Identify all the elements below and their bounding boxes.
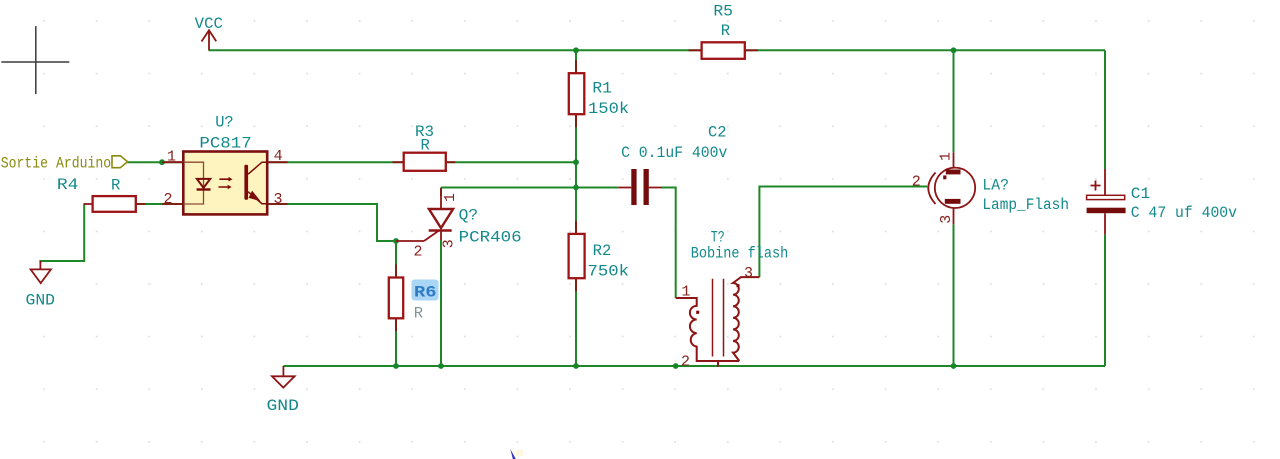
resistor R1 — [569, 60, 629, 127]
svg-text:C2: C2 — [708, 124, 727, 142]
wire C2 to transformer pin 1 — [662, 188, 676, 299]
resistor R3 — [393, 123, 456, 171]
wire R4 to opto pin 2 — [136, 203, 184, 205]
resistor R2 — [569, 221, 629, 291]
junction node R6 bottom — [393, 363, 399, 369]
svg-text:R2: R2 — [593, 242, 612, 260]
svg-text:C 0.1uF 400v: C 0.1uF 400v — [621, 144, 727, 162]
wire thyristor anode row — [441, 187, 576, 189]
capacitor C2 — [618, 124, 727, 206]
wire VCC top rail — [209, 49, 1106, 51]
resistor R6 — [389, 265, 439, 332]
svg-text:R6: R6 — [414, 284, 437, 302]
optocoupler U1 PC817 — [162, 114, 287, 215]
junction node lamp top — [951, 47, 957, 53]
wire Sortie Arduino to opto pin 1 — [128, 161, 184, 163]
wire lamp lower branch — [953, 224, 955, 366]
svg-text:C1: C1 — [1131, 185, 1150, 203]
svg-text:R: R — [721, 22, 730, 40]
svg-text:GND: GND — [26, 292, 56, 310]
svg-text:2: 2 — [414, 244, 423, 261]
junction node C2 R2 — [573, 185, 579, 191]
svg-text:2: 2 — [164, 191, 173, 208]
junction node R2 bottom — [573, 363, 579, 369]
svg-text:R1: R1 — [592, 80, 612, 98]
junction node R3 R1 — [573, 159, 579, 165]
svg-text:R5: R5 — [713, 3, 733, 21]
wire R1 R2 column — [575, 50, 577, 366]
wire bottom GND rail — [283, 365, 1105, 367]
svg-text:3: 3 — [440, 239, 457, 248]
mouse cursor — [510, 449, 523, 459]
svg-text:R: R — [414, 305, 423, 323]
svg-text:2: 2 — [912, 173, 921, 190]
wire transformer pin 3 to lamp trigger — [759, 187, 927, 278]
wire opto pin 4 to R3 to node — [267, 161, 576, 163]
svg-text:2: 2 — [681, 353, 690, 370]
capacitor C1 polarized — [1087, 169, 1237, 235]
junction node lamp bottom — [951, 363, 957, 369]
thyristor Q1 PCR406 — [396, 188, 522, 246]
svg-text:PC817: PC817 — [199, 135, 251, 153]
svg-text:Q?: Q? — [459, 206, 479, 224]
junction node gate R6 — [393, 238, 399, 244]
ground GND bottom — [267, 366, 299, 415]
svg-text:Sortie Arduino: Sortie Arduino — [1, 154, 111, 172]
wire thyristor cathode down — [440, 240, 442, 366]
junction node transformer pin 2 — [673, 363, 679, 369]
svg-text:1: 1 — [442, 193, 459, 202]
transformer T1 Bobine flash — [676, 228, 789, 366]
junction node opto pin 1 — [159, 159, 165, 165]
svg-text:GND: GND — [267, 397, 299, 415]
svg-text:VCC: VCC — [195, 15, 223, 33]
svg-text:1: 1 — [937, 152, 954, 161]
power symbol VCC — [202, 30, 217, 50]
wire lamp upper branch — [953, 50, 955, 152]
wire opto pin 3 to gate node — [267, 204, 396, 241]
wire C1 lower to bottom rail — [1104, 235, 1106, 366]
wire R4 left to GND — [40, 204, 84, 263]
svg-text:3: 3 — [274, 191, 283, 208]
svg-text:U?: U? — [215, 114, 234, 132]
svg-text:R: R — [111, 177, 120, 195]
sheet origin crosshair — [1, 26, 69, 94]
resistor R4 — [57, 176, 146, 212]
svg-text:3: 3 — [744, 265, 753, 282]
wire thyristor anode stub top — [440, 188, 442, 197]
wire R6 branch — [395, 241, 397, 366]
ground GND left — [26, 261, 56, 310]
svg-text:Lamp_Flash: Lamp_Flash — [982, 196, 1069, 214]
resistor R5 — [689, 3, 759, 59]
svg-text:4: 4 — [274, 148, 283, 165]
svg-text:Bobine flash: Bobine flash — [691, 244, 789, 262]
svg-text:3: 3 — [938, 215, 955, 224]
junction node cathode bottom — [438, 363, 444, 369]
svg-text:750k: 750k — [588, 263, 630, 281]
global label Sortie Arduino — [1, 154, 128, 172]
svg-text:1: 1 — [167, 149, 176, 166]
svg-text:150k: 150k — [588, 100, 629, 118]
wire node to C2 — [576, 187, 618, 189]
junction node R1 top — [573, 47, 579, 53]
svg-text:1: 1 — [682, 283, 691, 300]
lamp LA1 Lamp_Flash — [928, 152, 1069, 224]
svg-text:C 47 uf 400v: C 47 uf 400v — [1131, 204, 1237, 222]
svg-text:PCR406: PCR406 — [459, 228, 522, 246]
svg-text:LA?: LA? — [982, 176, 1009, 194]
wire right branch to C1 upper — [1104, 50, 1106, 169]
svg-text:R4: R4 — [57, 176, 79, 194]
svg-text:R: R — [421, 137, 430, 155]
